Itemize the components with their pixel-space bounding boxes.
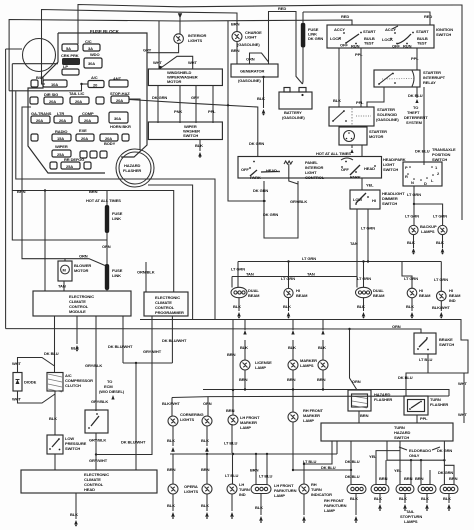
RH front marker lamp — [288, 412, 298, 422]
wire tail stems — [385, 460, 387, 484]
wire ignition PPL to relay — [416, 48, 418, 70]
wire bus C2 — [172, 396, 449, 398]
svg-text:DK BLU: DK BLU — [44, 351, 59, 356]
svg-text:PROGRAMMER: PROGRAMMER — [155, 310, 184, 315]
turn hazard switch box — [321, 423, 453, 441]
brake switch — [414, 333, 436, 354]
wire top bus 1 — [78, 5, 462, 45]
svg-text:BLK: BLK — [350, 496, 358, 501]
svg-text:BLK: BLK — [399, 496, 407, 501]
svg-text:GENERATOR: GENERATOR — [240, 69, 264, 74]
svg-text:LT GRN: LT GRN — [434, 277, 448, 282]
wire generator ground — [263, 77, 265, 108]
svg-text:20A: 20A — [49, 99, 56, 104]
ignition switch box — [327, 25, 434, 48]
svg-text:20A: 20A — [36, 118, 43, 123]
svg-text:IND: IND — [239, 492, 246, 497]
wire programmer pin DK BLU/WHT — [171, 316, 173, 363]
svg-text:BLK: BLK — [195, 143, 203, 148]
svg-text:R: R — [405, 174, 408, 179]
wire low pressure to head — [54, 454, 56, 470]
wire YEL to dimmer — [361, 178, 363, 190]
svg-text:SWITCH: SWITCH — [183, 133, 198, 138]
fuse square left of B/U — [31, 80, 38, 87]
svg-text:30A: 30A — [88, 61, 95, 66]
wire dimmer TAN down — [356, 209, 358, 277]
svg-text:GRY: GRY — [191, 95, 200, 100]
wire ORN hazard feed — [350, 329, 358, 390]
svg-text:BLK: BLK — [49, 416, 57, 421]
cornering grounds — [172, 426, 174, 446]
svg-text:RED: RED — [278, 6, 286, 11]
starter motor — [339, 127, 367, 145]
starter interrupt relay — [374, 70, 420, 87]
svg-text:TEST: TEST — [417, 41, 427, 46]
node interior lights tap — [178, 13, 182, 18]
svg-text:START: START — [363, 29, 376, 34]
svg-text:BRN: BRN — [449, 476, 458, 481]
wire DK GRN from panel switch — [264, 181, 298, 238]
svg-text:BLK: BLK — [421, 496, 429, 501]
svg-text:DK BLU: DK BLU — [345, 459, 360, 464]
fuse link 1 — [106, 191, 108, 207]
svg-text:DK BLU: DK BLU — [415, 149, 430, 154]
svg-text:SWITCH: SWITCH — [439, 342, 454, 347]
cornering lamp L — [168, 416, 178, 426]
svg-text:(GASOLINE): (GASOLINE) — [282, 115, 305, 120]
wire RH park turn feed — [350, 441, 352, 484]
svg-text:BLK: BLK — [167, 503, 175, 508]
fuse 5A — [62, 44, 78, 51]
wire BLU/WHT cornering feed — [171, 398, 173, 417]
wire interior light drop — [179, 14, 181, 35]
wire clutch to low pressure switch — [54, 391, 56, 435]
wire stop-haz to flasher — [129, 99, 140, 150]
svg-text:WHT: WHT — [12, 361, 21, 366]
wire turn flasher PPL — [416, 415, 418, 423]
wire DK GRN tail feed — [443, 441, 445, 485]
fuse squares row6 — [50, 162, 57, 169]
wire head park feed — [361, 145, 363, 157]
wire LH marker to LT BLU bus — [231, 424, 233, 453]
svg-text:ORN: ORN — [79, 254, 88, 259]
wire charge light to generator — [236, 42, 238, 65]
fuse block outline — [28, 33, 147, 173]
wire module pin DK BLU/WHT — [122, 316, 124, 363]
node A/C fuse junction — [80, 83, 82, 85]
svg-text:ORN: ORN — [352, 379, 361, 384]
svg-text:BLK: BLK — [70, 512, 78, 517]
svg-text:(GASOLINE): (GASOLINE) — [238, 78, 261, 83]
svg-text:PPL: PPL — [355, 52, 363, 57]
wire LT BLU link — [304, 441, 332, 464]
svg-text:GRY/WHT: GRY/WHT — [143, 349, 162, 354]
svg-text:LIGHTS: LIGHTS — [184, 489, 198, 494]
RH turn indicator — [303, 464, 305, 484]
svg-text:BRN: BRN — [317, 377, 326, 382]
svg-text:DK BLU/WHT: DK BLU/WHT — [162, 338, 187, 343]
svg-text:BEAM: BEAM — [419, 293, 431, 298]
svg-text:DK BLU: DK BLU — [321, 465, 336, 470]
wire bus A — [6, 329, 421, 333]
svg-text:YEL: YEL — [394, 468, 402, 473]
svg-text:BLK: BLK — [255, 505, 263, 510]
svg-text:PPL: PPL — [356, 100, 364, 105]
wire left tall feed to lower bus A — [5, 49, 7, 329]
fuse BODY 20A — [100, 134, 118, 141]
svg-text:WHT: WHT — [153, 60, 162, 65]
backup lamp grounds — [413, 235, 415, 248]
svg-text:LTR: LTR — [57, 111, 64, 116]
svg-text:LAMP: LAMP — [274, 493, 285, 498]
svg-text:LAMPS: LAMPS — [300, 363, 314, 368]
wire wiper switch lever — [160, 56, 193, 69]
wire lamp bus y453 — [170, 453, 337, 455]
dual beam lamp LH — [231, 287, 247, 297]
svg-text:DK BLU/WHT: DK BLU/WHT — [121, 440, 146, 445]
svg-text:BLK: BLK — [283, 304, 291, 309]
svg-text:LIGHTS: LIGHTS — [180, 417, 194, 422]
wire cross bus y363 — [123, 362, 172, 364]
dual beam lamp RH — [363, 262, 365, 288]
diode — [13, 373, 22, 392]
wire top bus 2 — [42, 10, 238, 85]
marker lamps — [292, 340, 294, 360]
connector circle top-left — [23, 39, 56, 72]
svg-text:LP: LP — [63, 64, 68, 69]
wire hazard BRN — [358, 411, 360, 423]
wire module pin GRY/BLK — [95, 316, 97, 411]
wire blower ORN feed — [22, 107, 105, 266]
svg-text:OFF: OFF — [340, 43, 348, 48]
svg-text:START: START — [416, 29, 429, 34]
svg-text:GRY/BLK: GRY/BLK — [89, 438, 106, 443]
svg-text:LT GRN: LT GRN — [405, 214, 419, 219]
svg-text:BRN: BRN — [415, 476, 424, 481]
wire wiper motor pin3 — [195, 86, 197, 124]
wire transaxle LT GRN out — [413, 186, 415, 204]
svg-text:WHT: WHT — [458, 412, 467, 417]
wire relay DK BLU theft — [416, 87, 418, 98]
wire BRN bus C1 — [203, 390, 449, 397]
svg-text:D: D — [424, 181, 427, 186]
svg-text:BRN: BRN — [250, 468, 259, 473]
charge light lamp — [232, 32, 242, 42]
svg-text:FLASHER: FLASHER — [374, 397, 392, 402]
windshield wiper motor — [148, 69, 222, 86]
svg-text:DK GRN: DK GRN — [253, 188, 268, 193]
wire switch ground — [199, 140, 201, 151]
tail stop turn lamp 1 — [371, 485, 389, 494]
svg-text:N: N — [411, 180, 414, 185]
svg-text:LT GRN: LT GRN — [302, 256, 316, 261]
wire stop-haz fuse to panel light control — [129, 100, 258, 157]
svg-text:BLK: BLK — [357, 304, 365, 309]
svg-text:BLK: BLK — [407, 240, 415, 245]
wire DK BLU link — [293, 469, 351, 471]
wire diode top bracket — [18, 358, 55, 373]
panel light control box — [238, 157, 382, 179]
tail stop turn lamp 4 — [440, 485, 458, 494]
svg-text:DK GRN: DK GRN — [438, 470, 453, 475]
svg-text:P: P — [405, 165, 408, 170]
svg-text:(W/O DIESEL): (W/O DIESEL) — [99, 389, 125, 394]
svg-text:LAMP: LAMP — [240, 425, 251, 430]
svg-text:BRN: BRN — [379, 476, 388, 481]
svg-text:10A: 10A — [51, 82, 58, 87]
wire jog top-left — [6, 48, 22, 50]
svg-text:MOTOR: MOTOR — [369, 134, 384, 139]
svg-text:HORN BKR: HORN BKR — [110, 124, 131, 129]
svg-text:COMP: COMP — [82, 111, 94, 116]
RH front park/turn lamp — [347, 485, 366, 494]
generator box — [231, 64, 278, 77]
wire module pin DK BLU — [54, 316, 56, 373]
turn flasher — [404, 396, 428, 415]
opera lamp R — [206, 454, 208, 484]
svg-text:LT BLU: LT BLU — [225, 473, 239, 478]
svg-text:(GASOLINE): (GASOLINE) — [237, 42, 260, 47]
svg-text:30A: 30A — [114, 116, 121, 121]
wire wiper motor pin2 — [179, 86, 181, 124]
wire ignition BLK to solenoid — [338, 48, 340, 107]
svg-text:TEST: TEST — [364, 41, 374, 46]
wire blower TAN out — [63, 281, 65, 291]
svg-text:BRN: BRN — [360, 413, 369, 418]
wire ignition PPL to solenoid — [360, 48, 362, 107]
wire switch to head — [95, 433, 97, 470]
fuse square left of DIR SIG — [30, 97, 38, 104]
svg-text:ONLY: ONLY — [409, 453, 420, 458]
svg-text:3A: 3A — [88, 46, 93, 51]
svg-text:PARK: PARK — [350, 175, 361, 180]
svg-text:LINK: LINK — [112, 273, 121, 278]
svg-text:HOT AT ALL TIMES: HOT AT ALL TIMES — [86, 198, 121, 203]
svg-text:ORN/BLK: ORN/BLK — [137, 270, 155, 275]
svg-text:LT GRN: LT GRN — [361, 226, 375, 231]
A/C compressor clutch — [47, 373, 63, 392]
svg-text:DK BLU: DK BLU — [345, 474, 360, 479]
wire dimmer LT GRN down — [367, 209, 369, 262]
svg-text:SWITCH: SWITCH — [383, 167, 398, 172]
svg-text:LINK: LINK — [112, 216, 121, 221]
wire DK BLU/WHT to head — [135, 363, 137, 470]
backup lamp left — [409, 225, 418, 234]
wire top bus 4 hot feed — [9, 20, 352, 91]
svg-text:SYSTEM: SYSTEM — [406, 120, 423, 125]
dual beam LH ground — [238, 298, 240, 311]
svg-text:LT BLU: LT BLU — [303, 459, 317, 464]
svg-text:BEAM: BEAM — [296, 293, 308, 298]
svg-text:B/U: B/U — [36, 75, 43, 80]
svg-text:CONTROL: CONTROL — [305, 175, 325, 180]
svg-text:C/C: C/C — [85, 39, 92, 44]
svg-text:BRN: BRN — [89, 189, 98, 194]
svg-text:DK BLU/WHT: DK BLU/WHT — [108, 344, 133, 349]
wire LT GRN headlamp bus — [238, 261, 441, 263]
svg-text:BLK: BLK — [240, 345, 248, 350]
wire ORN stub — [250, 53, 269, 64]
svg-text:STOP-HAZ: STOP-HAZ — [110, 91, 130, 96]
svg-text:LT GRN: LT GRN — [281, 276, 295, 281]
svg-text:(GASOLINE): (GASOLINE) — [376, 117, 399, 122]
svg-text:GRY/BLK: GRY/BLK — [85, 363, 102, 368]
battery — [279, 92, 312, 109]
svg-text:OFF: OFF — [241, 167, 249, 172]
svg-text:BEAM: BEAM — [373, 293, 385, 298]
wire RED bracket — [269, 12, 303, 85]
svg-text:ACCY: ACCY — [334, 27, 345, 32]
wire left block drop — [12, 64, 107, 240]
fuse squares row5 — [80, 151, 87, 158]
wire interior lamp to wiper feed — [159, 43, 179, 52]
svg-text:HOT AT ALL TIMES: HOT AT ALL TIMES — [316, 151, 351, 156]
svg-text:BLK: BLK — [406, 304, 414, 309]
LH front park/turn lamp — [255, 454, 257, 485]
svg-text:20A: 20A — [75, 99, 82, 104]
wire module pin BLK ground — [76, 316, 78, 344]
svg-text:GRY/BLK: GRY/BLK — [91, 399, 108, 404]
svg-text:YEL: YEL — [369, 454, 377, 459]
svg-text:PPL: PPL — [411, 56, 419, 61]
svg-text:WHT: WHT — [12, 397, 21, 402]
wire right border drop — [461, 5, 463, 221]
marker lamp ground drops — [292, 320, 294, 331]
svg-text:GRY/WHT: GRY/WHT — [89, 458, 108, 463]
svg-text:SWITCH: SWITCH — [65, 446, 80, 451]
svg-text:A/C: A/C — [91, 75, 98, 80]
svg-text:HI: HI — [372, 198, 376, 203]
backup lamp right — [438, 225, 447, 234]
tail stop turn lamp 3 — [418, 485, 436, 494]
svg-text:LT GRN: LT GRN — [231, 267, 245, 272]
svg-text:LT BLU: LT BLU — [224, 441, 238, 446]
wire wiper feed vertical — [158, 21, 160, 69]
svg-text:GA-TRANS: GA-TRANS — [31, 111, 52, 116]
wire BRN to ECC module — [44, 191, 46, 292]
starter solenoid — [329, 107, 374, 126]
svg-text:WIPER: WIPER — [55, 144, 68, 149]
fuse square right row4 — [122, 134, 129, 141]
svg-text:RED: RED — [341, 14, 349, 19]
svg-text:LIGHT: LIGHT — [245, 35, 257, 40]
wire programmer pin GRY/WHT — [96, 316, 152, 455]
svg-text:FUSE BLOCK: FUSE BLOCK — [90, 29, 120, 34]
svg-text:HEAD: HEAD — [364, 166, 375, 171]
svg-text:IND: IND — [449, 298, 456, 303]
ECC head box — [21, 470, 157, 493]
svg-text:BRN: BRN — [226, 408, 235, 413]
svg-text:GRY/BLK: GRY/BLK — [290, 199, 307, 204]
svg-text:BLK: BLK — [288, 345, 296, 350]
svg-text:BRN: BRN — [239, 377, 248, 382]
svg-text:LAMP: LAMP — [303, 418, 314, 423]
wire bus B — [140, 320, 468, 424]
svg-text:WDO: WDO — [90, 52, 99, 57]
svg-text:MOTOR: MOTOR — [167, 79, 182, 84]
svg-text:DK BLU: DK BLU — [398, 375, 413, 380]
svg-text:WHT: WHT — [188, 60, 197, 65]
wire ORN cornering feed — [207, 397, 209, 416]
svg-text:BRN: BRN — [201, 467, 210, 472]
svg-text:LT BLU: LT BLU — [419, 357, 433, 362]
svg-text:CRK PRK: CRK PRK — [61, 53, 79, 58]
svg-text:DK GRN: DK GRN — [308, 36, 323, 41]
svg-text:BLK: BLK — [201, 438, 209, 443]
svg-text:TAN: TAN — [58, 284, 66, 289]
svg-text:BEAM: BEAM — [248, 293, 260, 298]
license lamp — [244, 340, 246, 360]
svg-text:PNK: PNK — [174, 109, 182, 114]
svg-text:BLK: BLK — [436, 240, 444, 245]
tail stop turn lamp 2 — [396, 485, 414, 494]
ECC programmer box — [144, 292, 188, 316]
fuse HORN BKR 30A — [109, 112, 128, 123]
wire long vertical x228 — [228, 21, 266, 202]
wire relay to transaxle — [423, 87, 425, 162]
svg-text:SWITCH: SWITCH — [382, 201, 397, 206]
hazard flasher bottom — [348, 390, 371, 411]
svg-text:SWITCH: SWITCH — [432, 157, 447, 162]
svg-text:BLK/WHT: BLK/WHT — [162, 401, 180, 406]
wire battery hot bus to ignition — [303, 12, 430, 25]
wiper washer switch box — [148, 122, 222, 140]
svg-text:LT GRN: LT GRN — [404, 276, 418, 281]
svg-text:LAMPS: LAMPS — [421, 229, 435, 234]
license lamp ground drop — [244, 320, 246, 331]
svg-text:LT GRN: LT GRN — [407, 192, 421, 197]
svg-text:PARK: PARK — [250, 175, 261, 180]
ECC module box — [33, 291, 131, 316]
svg-text:BLK: BLK — [443, 496, 451, 501]
node generator ground tap — [262, 76, 264, 78]
node BRN tap — [44, 189, 46, 191]
svg-text:DK GRN: DK GRN — [437, 448, 452, 453]
fuse square right of TAIL LIC — [96, 97, 104, 104]
wire BRN bus — [12, 191, 173, 293]
blower motor — [58, 261, 72, 281]
headlight dimmer switch — [350, 190, 380, 209]
svg-text:DK GRN: DK GRN — [263, 212, 278, 217]
svg-text:BLK: BLK — [233, 304, 241, 309]
svg-text:BRN: BRN — [17, 189, 26, 194]
svg-text:TAN: TAN — [307, 272, 315, 277]
svg-text:BRN: BRN — [404, 476, 413, 481]
hazard flasher (fuse block) — [116, 149, 154, 187]
wire YEL tail feed — [399, 441, 401, 485]
svg-text:15A: 15A — [57, 136, 64, 141]
wire relay to solenoid — [367, 87, 384, 107]
svg-text:YEL: YEL — [366, 183, 374, 188]
svg-text:FLASHER: FLASHER — [123, 168, 141, 173]
svg-text:SWITCH: SWITCH — [436, 32, 451, 37]
svg-text:FLASHER: FLASHER — [430, 402, 448, 407]
wire GRY stub — [147, 52, 159, 54]
svg-text:TAN: TAN — [350, 241, 358, 246]
wire wiper motor pin4 — [212, 86, 214, 124]
svg-text:LT GRN: LT GRN — [357, 276, 371, 281]
svg-text:DK GRN: DK GRN — [152, 95, 167, 100]
svg-text:LIGHTS: LIGHTS — [188, 38, 202, 43]
svg-text:DIODE: DIODE — [24, 380, 37, 385]
svg-text:DK BLU: DK BLU — [408, 93, 423, 98]
wire head ground — [75, 493, 77, 519]
wire L1 feed — [16, 91, 215, 319]
svg-text:RUN: RUN — [351, 44, 360, 49]
low pressure switch — [47, 435, 63, 454]
svg-text:RR DEFOG: RR DEFOG — [64, 157, 84, 162]
svg-text:LT GRN: LT GRN — [433, 214, 447, 219]
